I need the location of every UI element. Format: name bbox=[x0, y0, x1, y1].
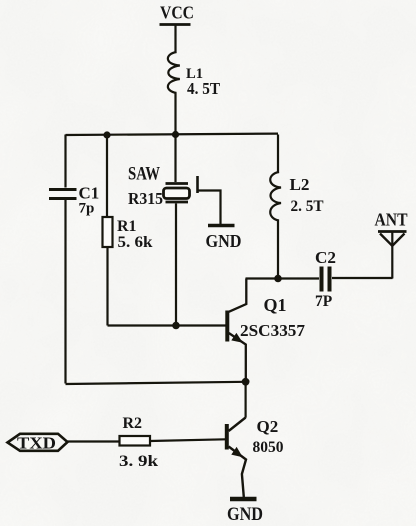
wire SAW to Q1 base line bbox=[175, 204, 177, 326]
resistor R2 bbox=[120, 436, 151, 446]
svg-text:4. 5T: 4. 5T bbox=[187, 79, 220, 98]
node junction L2/collector line bbox=[274, 275, 282, 283]
node junction L1/bus bbox=[172, 131, 179, 138]
capacitor C1 bbox=[49, 188, 77, 191]
wire bus to SAW bbox=[174, 135, 176, 183]
svg-text:ANT: ANT bbox=[375, 210, 408, 230]
wire bus corner to L2 bbox=[277, 135, 279, 174]
wire R2 to Q2 base bbox=[150, 439, 226, 441]
antenna ANT bbox=[375, 210, 408, 279]
wire node to Q2 collector bbox=[245, 382, 247, 418]
wire collector node line bbox=[246, 277, 320, 279]
svg-text:R2: R2 bbox=[123, 415, 143, 432]
inductor L2 bbox=[270, 172, 281, 221]
ground (Q2 emitter) bbox=[230, 497, 257, 502]
transistor Q2 bbox=[227, 417, 284, 497]
TXD input tag bbox=[8, 434, 68, 453]
node junction SAW/base line bbox=[172, 322, 180, 330]
svg-text:Q1: Q1 bbox=[264, 295, 287, 315]
svg-text:Q2: Q2 bbox=[257, 417, 279, 436]
Q2 base bar bbox=[225, 424, 229, 450]
wire bottom bus bbox=[66, 382, 246, 384]
Q1 emitter bbox=[229, 333, 246, 382]
wire VCC to L1 bbox=[174, 26, 176, 54]
wire R1 to Q1 base line bbox=[106, 247, 108, 326]
wire TXD to R2 bbox=[68, 440, 120, 442]
svg-text:R1: R1 bbox=[117, 218, 137, 235]
svg-text:7p: 7p bbox=[79, 201, 95, 217]
svg-text:5. 6k: 5. 6k bbox=[118, 234, 153, 251]
svg-text:SAW: SAW bbox=[128, 165, 160, 185]
wire C1 to bottom bus bbox=[64, 200, 66, 384]
svg-text:C2: C2 bbox=[315, 248, 336, 267]
svg-text:GND: GND bbox=[206, 231, 242, 251]
svg-text:2SC3357: 2SC3357 bbox=[240, 321, 306, 340]
wire bus to R1 bbox=[106, 135, 108, 217]
svg-text:TXD: TXD bbox=[17, 434, 56, 453]
wire Q1 base line bbox=[108, 324, 227, 326]
SAW resonator R315 bbox=[128, 165, 190, 208]
Q1 emitter arrow bbox=[231, 333, 243, 343]
wire C2 to antenna bbox=[332, 277, 393, 279]
capacitor C2 bbox=[320, 267, 324, 292]
wire tab to GND bbox=[198, 191, 221, 225]
wire bus to C1 bbox=[64, 135, 66, 188]
svg-text:7P: 7P bbox=[315, 293, 333, 310]
ground (SAW case) bbox=[208, 224, 235, 228]
Q2 emitter arrow bbox=[231, 447, 243, 457]
node junction R1/bus bbox=[103, 131, 110, 138]
svg-text:8050: 8050 bbox=[253, 439, 284, 456]
Q1 base bar bbox=[225, 311, 229, 342]
svg-text:2. 5T: 2. 5T bbox=[291, 198, 324, 215]
node junction emitter/bottom bus bbox=[242, 378, 250, 386]
svg-text:R315: R315 bbox=[128, 189, 163, 208]
wire L1 to top bus bbox=[174, 93, 176, 134]
inductor L1 bbox=[168, 52, 180, 93]
Q2 emitter bbox=[229, 447, 246, 498]
wire top bus bbox=[66, 134, 279, 135]
Q1 collector bbox=[229, 279, 247, 312]
svg-text:L2: L2 bbox=[290, 175, 310, 194]
SAW case ground tab bbox=[196, 176, 199, 193]
transistor Q1 bbox=[227, 279, 305, 382]
svg-text:GND: GND bbox=[227, 504, 263, 525]
svg-text:VCC: VCC bbox=[160, 2, 194, 22]
wire L2 to collector node bbox=[277, 220, 279, 279]
Q2 collector bbox=[229, 418, 246, 432]
VCC rail bar bbox=[160, 23, 191, 26]
svg-text:3. 9k: 3. 9k bbox=[119, 453, 158, 470]
resistor R1 bbox=[103, 217, 113, 247]
